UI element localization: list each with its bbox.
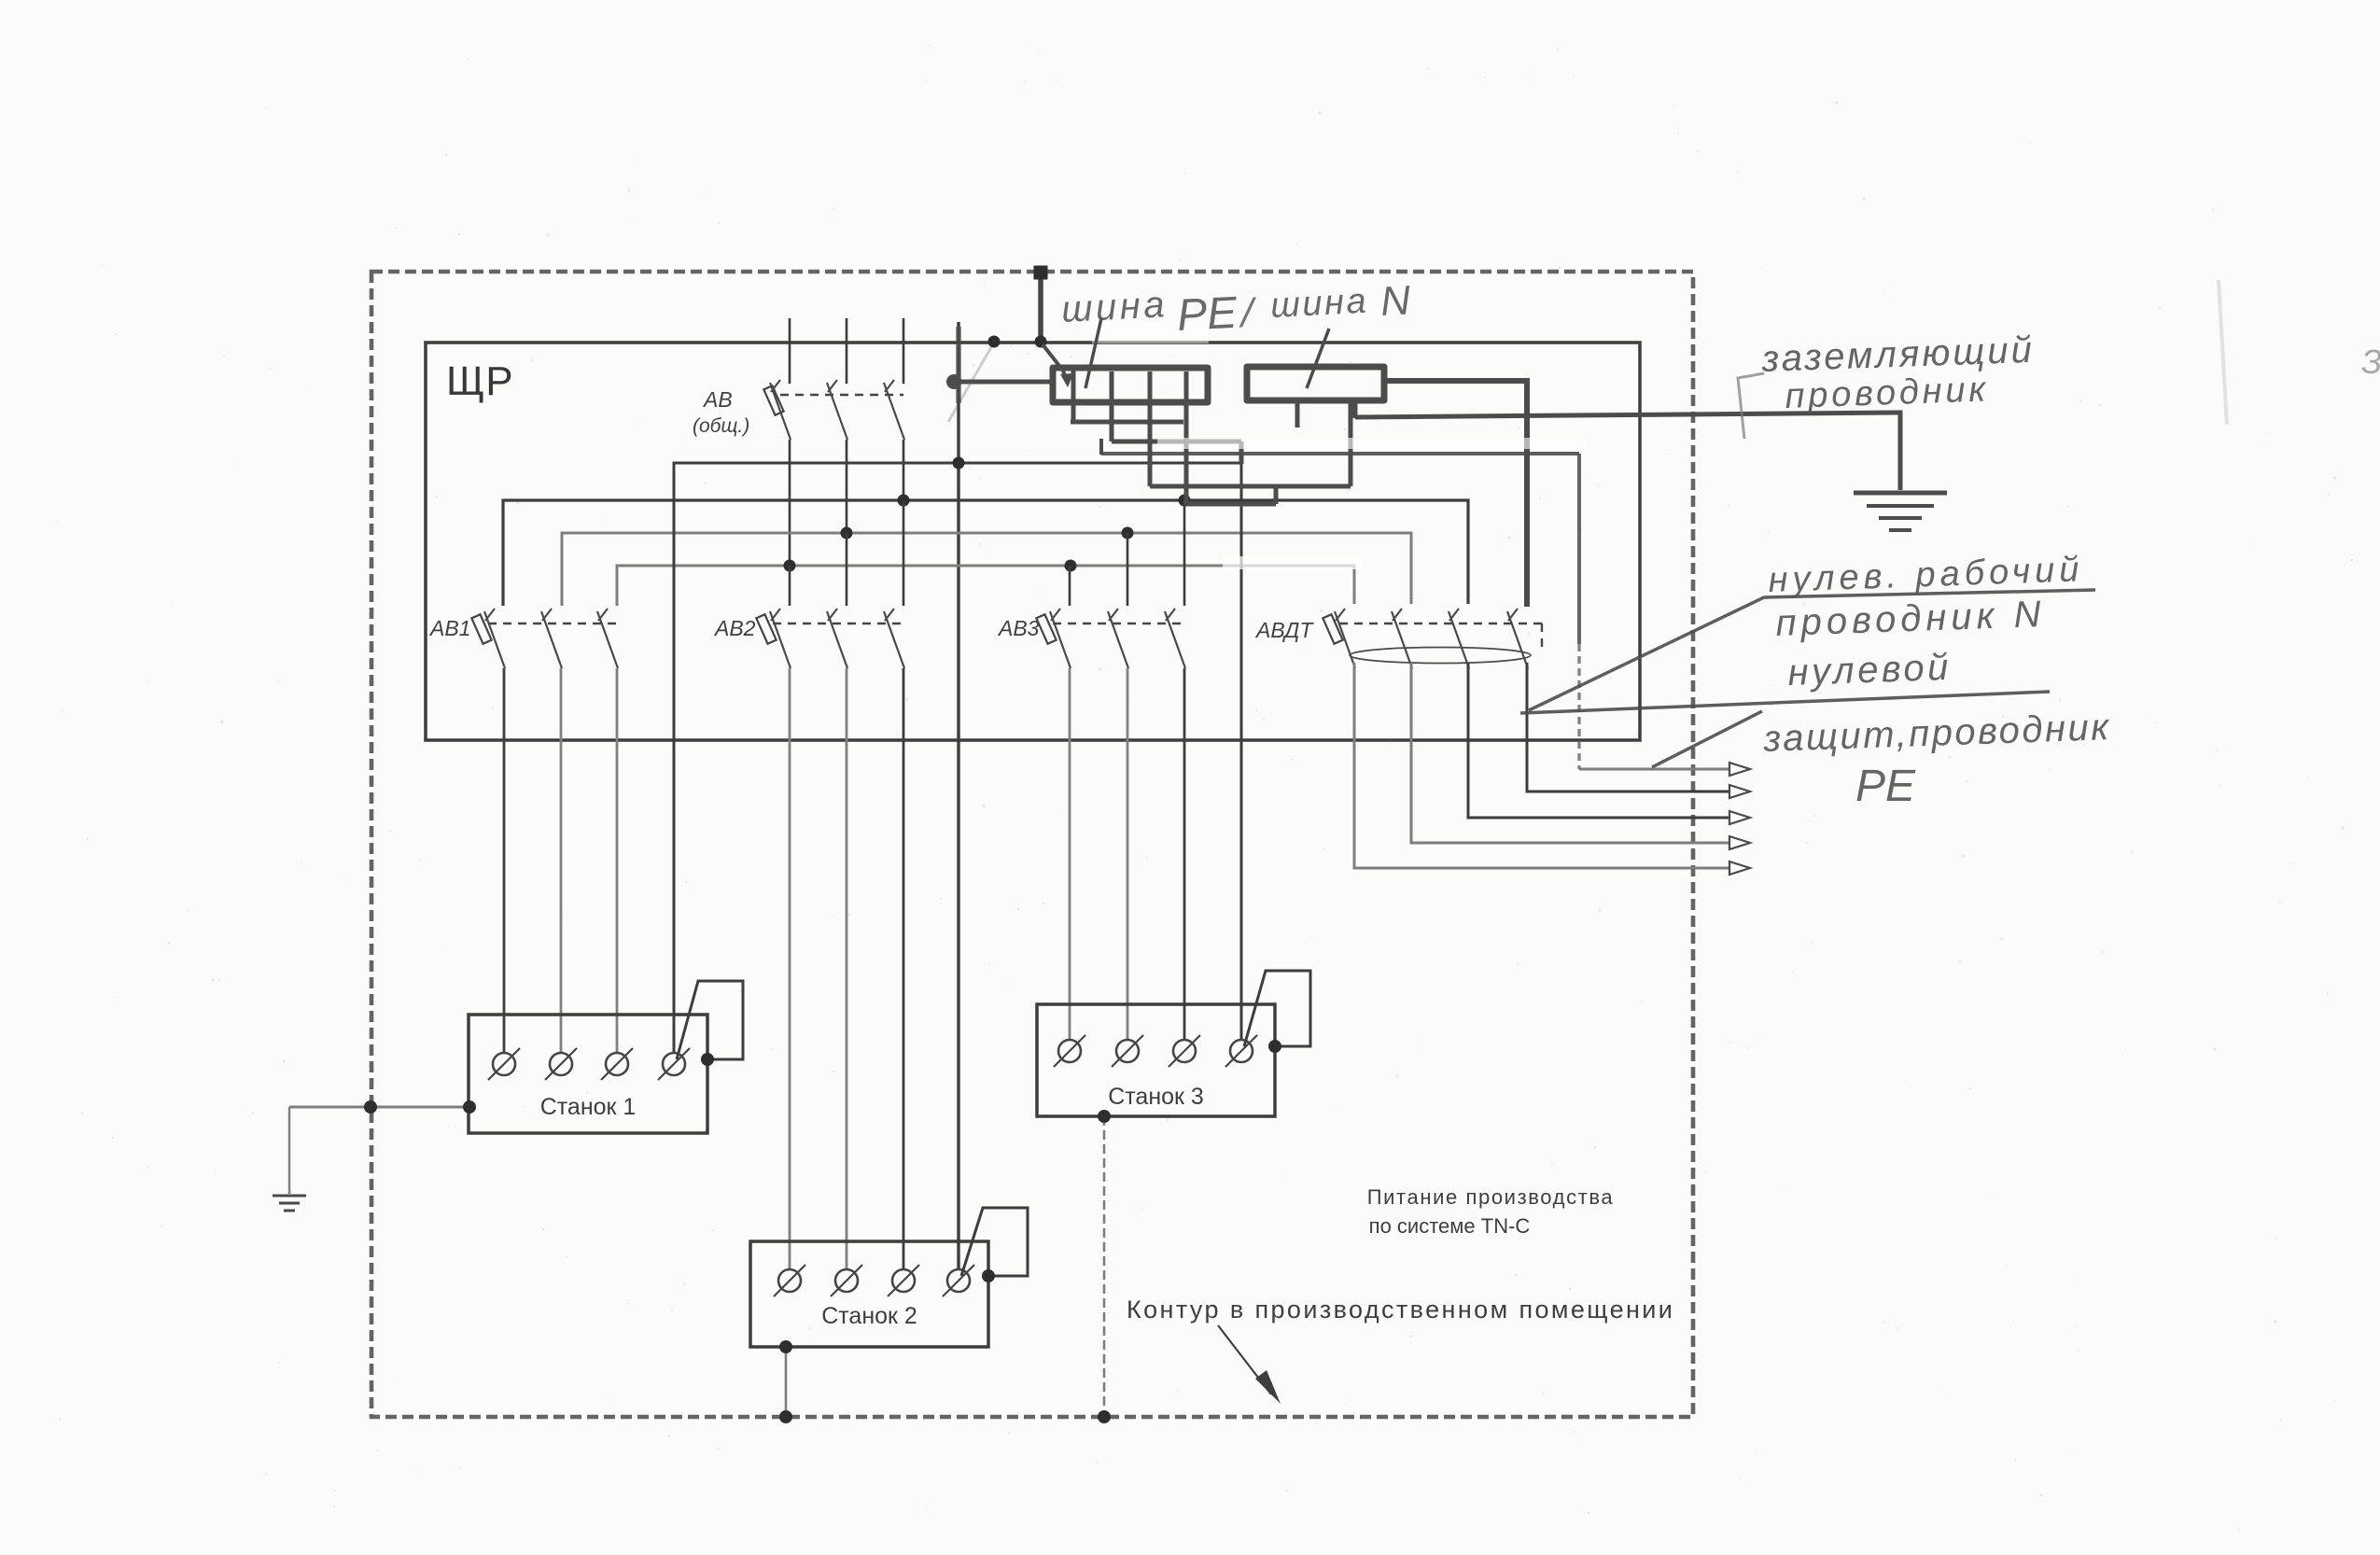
svg-text:Питание производства: Питание производства xyxy=(1367,1185,1615,1209)
svg-text:нулевой: нулевой xyxy=(1787,647,1953,693)
svg-text:АВ: АВ xyxy=(702,387,733,412)
svg-text:ЩР: ЩР xyxy=(446,358,514,404)
svg-text:З: З xyxy=(2361,343,2380,381)
svg-text:Станок 1: Станок 1 xyxy=(540,1094,637,1120)
svg-text:Станок 3: Станок 3 xyxy=(1108,1084,1204,1110)
svg-text:РЕ: РЕ xyxy=(1176,288,1239,341)
svg-text:по системе TN-C: по системе TN-C xyxy=(1369,1214,1531,1238)
svg-text:АВ1: АВ1 xyxy=(428,616,470,640)
svg-text:(общ.): (общ.) xyxy=(693,415,749,437)
svg-text:проводник: проводник xyxy=(1785,370,1990,416)
svg-text:Контур в производственном поме: Контур в производственном помещении xyxy=(1127,1296,1674,1324)
svg-text:N: N xyxy=(1379,277,1412,325)
svg-text:АВДТ: АВДТ xyxy=(1254,618,1314,642)
svg-text:АВ2: АВ2 xyxy=(713,616,756,640)
svg-text:Станок 2: Станок 2 xyxy=(821,1303,917,1329)
svg-text:шина: шина xyxy=(1060,284,1169,330)
svg-text:АВ3: АВ3 xyxy=(997,616,1040,640)
svg-text:шина: шина xyxy=(1269,282,1369,326)
svg-text:РЕ: РЕ xyxy=(1855,762,1916,811)
